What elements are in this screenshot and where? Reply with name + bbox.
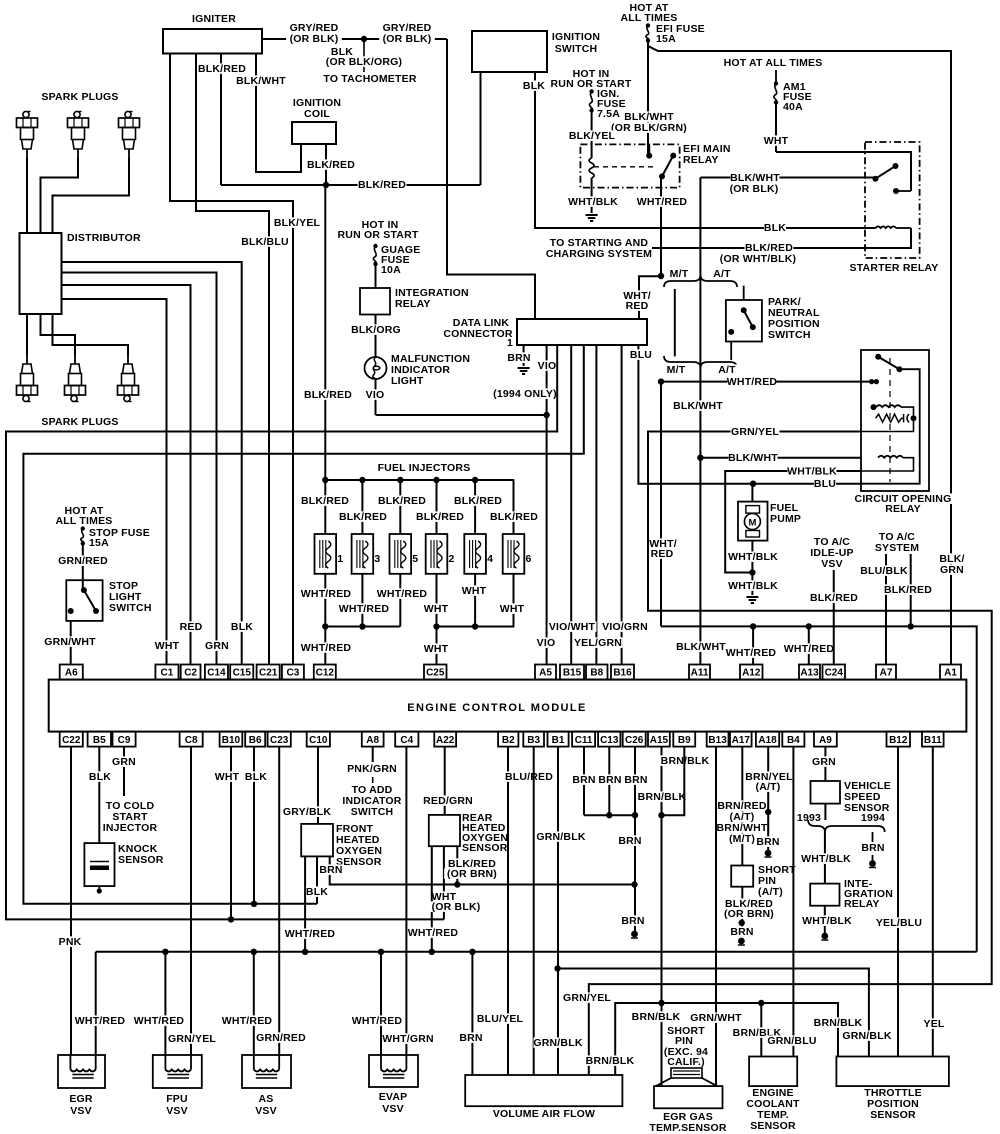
connector C11 (572, 732, 595, 747)
connector A1 (940, 665, 961, 680)
connector A5 (535, 665, 556, 680)
EVAP VSV (369, 1055, 418, 1087)
svg-text:B3: B3 (527, 735, 540, 746)
1993/1994 brace (808, 820, 885, 832)
svg-text:(OR WHT/BLK): (OR WHT/BLK) (720, 253, 796, 265)
svg-text:BLK/YEL: BLK/YEL (274, 217, 321, 229)
wire A17 through short pin (741, 747, 743, 866)
connector C25 (424, 665, 447, 680)
svg-text:PNK: PNK (59, 936, 82, 948)
EFI relay switch contacts (670, 153, 676, 159)
svg-text:ALL TIMES: ALL TIMES (55, 515, 112, 527)
svg-text:GRY/BLK: GRY/BLK (283, 806, 331, 818)
svg-text:WHT/BLK: WHT/BLK (728, 580, 778, 592)
svg-text:BLK/WHT: BLK/WHT (673, 400, 723, 412)
svg-text:C15: C15 (233, 668, 252, 679)
svg-text:M/T: M/T (670, 268, 689, 280)
wire integration relay to MIL (375, 315, 377, 358)
svg-text:INJECTOR: INJECTOR (103, 822, 158, 834)
svg-text:A7: A7 (880, 668, 893, 679)
svg-text:GRN/BLK: GRN/BLK (536, 831, 585, 843)
svg-text:(OR BLK): (OR BLK) (432, 901, 481, 913)
connector C23 (268, 732, 291, 747)
knock sensor (84, 843, 114, 886)
spark plugs top label (39, 91, 122, 102)
svg-text:B15: B15 (563, 668, 582, 679)
svg-text:A9: A9 (819, 735, 832, 746)
svg-text:VSV: VSV (166, 1105, 188, 1117)
spark plug 2 bottom (65, 355, 86, 402)
svg-text:C8: C8 (185, 735, 198, 746)
wire gauge fuse to integration relay (375, 266, 377, 289)
svg-text:RELAY: RELAY (395, 298, 431, 310)
svg-text:7.5A: 7.5A (597, 108, 620, 120)
wire VIO horizontal to A5 (376, 414, 547, 416)
integration relay box (upper) (360, 288, 390, 315)
svg-text:C26: C26 (625, 735, 644, 746)
wire distributor to bottom plug1 (26, 314, 28, 355)
starter relay switch (893, 163, 899, 169)
rear heated oxygen sensor (429, 815, 460, 846)
svg-text:VSV: VSV (821, 558, 843, 570)
svg-text:BLK/RED: BLK/RED (416, 511, 464, 523)
svg-text:WHT/RED: WHT/RED (285, 928, 336, 940)
rear O2 left pin WHT/RED to bus (431, 846, 433, 952)
svg-text:BLK/RED: BLK/RED (307, 159, 355, 171)
wire plug3 to distributor (53, 158, 130, 233)
svg-text:WHT/RED: WHT/RED (352, 1015, 403, 1027)
svg-text:B1: B1 (552, 735, 565, 746)
wire BLK/RED horizontal to ignition switch pin (221, 184, 481, 186)
connector B11 (922, 732, 944, 747)
connector B9 (673, 732, 695, 747)
svg-text:C10: C10 (309, 735, 328, 746)
svg-text:SENSOR: SENSOR (336, 856, 382, 868)
wire B11 YEL to TPS (932, 747, 934, 1057)
svg-text:BRN: BRN (624, 774, 647, 786)
wire B10 WHT to WHT bus (230, 747, 232, 920)
svg-text:DISTRIBUTOR: DISTRIBUTOR (67, 232, 141, 244)
svg-text:YEL/GRN: YEL/GRN (574, 637, 622, 649)
svg-text:BLK/BLU: BLK/BLU (241, 236, 288, 248)
svg-text:(OR BRN): (OR BRN) (447, 868, 497, 880)
wire GRY/RED to DLC (364, 38, 447, 40)
svg-text:ENGINE CONTROL MODULE: ENGINE CONTROL MODULE (407, 702, 587, 714)
svg-text:GRN/BLU: GRN/BLU (767, 1035, 816, 1047)
svg-text:(OR BLK/ORG): (OR BLK/ORG) (326, 56, 402, 68)
ground fuel pump (746, 596, 758, 598)
vehicle speed sensor (811, 781, 841, 804)
svg-text:(A/T): (A/T) (756, 781, 781, 793)
svg-text:RELAY: RELAY (885, 503, 921, 515)
wire igniter pin4 to ignition coil (BLK/WHT) (256, 54, 301, 173)
svg-text:GRN/YEL: GRN/YEL (563, 992, 611, 1004)
svg-text:4: 4 (487, 553, 493, 565)
svg-text:C2: C2 (184, 668, 197, 679)
wire WHT/RED branch to DLC top (639, 276, 661, 319)
svg-text:WHT: WHT (764, 135, 789, 147)
svg-text:B12: B12 (889, 735, 908, 746)
node A12 tap (750, 623, 756, 629)
park/neutral M/T A/T brace top (668, 268, 690, 279)
connector C8 (180, 732, 203, 747)
svg-text:B6: B6 (249, 735, 262, 746)
svg-text:C23: C23 (270, 735, 289, 746)
throttle position sensor box (836, 1057, 949, 1087)
svg-text:C3: C3 (287, 668, 300, 679)
wire EFI fuse to A1 feed (648, 42, 951, 665)
node FPU tap (162, 949, 168, 955)
wire stop fuse to switch (82, 545, 84, 590)
wire igniter pin3 down (BLK/RED) (220, 54, 222, 186)
wire BLK/RED to WHT/RED feed (910, 554, 912, 627)
connector A22 (434, 732, 456, 747)
connector A15 (648, 732, 670, 747)
connector B15 (560, 665, 584, 680)
labels WHT/RED / WHT (302, 588, 351, 599)
svg-text:GRN/RED: GRN/RED (58, 555, 108, 567)
svg-text:C21: C21 (259, 668, 278, 679)
svg-text:A12: A12 (742, 668, 761, 679)
connector B12 (887, 732, 911, 747)
svg-text:B11: B11 (924, 735, 942, 746)
svg-text:PNK/GRN: PNK/GRN (347, 763, 397, 775)
wire BLK/WHT (OR BLK) to starter relay (700, 177, 875, 179)
wire C9 GRN to cold start injector (123, 747, 125, 796)
front O2 left pin WHT/RED to bus (304, 856, 306, 951)
svg-text:VSV: VSV (70, 1105, 92, 1117)
svg-text:FPU: FPU (166, 1093, 188, 1105)
wire distributor to bottom plug2 (41, 314, 76, 355)
svg-text:(M/T): (M/T) (729, 833, 755, 845)
svg-text:SENSOR: SENSOR (750, 1120, 796, 1132)
svg-text:BRN: BRN (621, 915, 644, 927)
wire 1993 WHT/BLK to integration relay (824, 832, 826, 884)
svg-text:BRN: BRN (598, 774, 621, 786)
spark plug 2 top (68, 111, 89, 158)
labels BLK/RED row2 (339, 511, 388, 522)
label BLK/WHT (237, 75, 286, 86)
svg-text:BLK/RED: BLK/RED (378, 495, 426, 507)
svg-text:A11: A11 (691, 668, 709, 679)
wire EFI fuse down to EFI main relay (647, 46, 649, 156)
svg-text:BRN/BLK: BRN/BLK (638, 791, 687, 803)
connector A13 (799, 665, 820, 680)
wire WHT/RED horizontal feed (661, 626, 977, 951)
svg-text:WHT/RED: WHT/RED (222, 1015, 273, 1027)
front heated oxygen sensor (301, 824, 333, 857)
connector A6 (60, 665, 83, 680)
wire B5 BLK to knock sensor (98, 747, 100, 844)
svg-text:WHT/BLK: WHT/BLK (801, 853, 851, 865)
connector C14 (205, 665, 228, 680)
svg-text:WHT/RED: WHT/RED (301, 588, 352, 600)
svg-text:WHT/GRN: WHT/GRN (382, 1033, 434, 1045)
ground EFI relay (586, 214, 598, 216)
wire C22 PNK to EGR VSV (70, 747, 72, 1055)
wire WHT/RED to circuit opening relay (661, 381, 869, 383)
svg-text:COIL: COIL (304, 108, 330, 120)
wire GRN/WHT to A6 (70, 621, 72, 665)
svg-text:BLK/YEL: BLK/YEL (569, 130, 616, 142)
svg-text:A6: A6 (65, 668, 78, 679)
svg-text:SWITCH: SWITCH (109, 602, 152, 614)
svg-text:BLU/BLK: BLU/BLK (860, 565, 908, 577)
wire MIL VIO to A5 junction (375, 379, 377, 415)
svg-text:C9: C9 (118, 735, 131, 746)
svg-text:EVAP: EVAP (379, 1091, 408, 1103)
label BLK/ORG (352, 324, 401, 335)
svg-text:C13: C13 (600, 735, 619, 746)
svg-text:BLK/RED: BLK/RED (339, 511, 387, 523)
label GRY/RED (OR BLK) #2 (383, 22, 432, 33)
EFI main relay box (580, 144, 679, 187)
svg-text:B5: B5 (93, 735, 106, 746)
fuel pump (738, 502, 768, 541)
svg-text:(1994 ONLY): (1994 ONLY) (493, 388, 557, 400)
svg-text:WHT: WHT (462, 585, 487, 597)
svg-text:BRN: BRN (319, 864, 342, 876)
wire distributor to bottom plug3 (53, 314, 129, 355)
wire BRN junction down (634, 815, 636, 933)
EFI fuse 15A (646, 23, 650, 27)
injector return bus right to C25 (437, 626, 515, 628)
svg-text:GRN/RED: GRN/RED (256, 1032, 306, 1044)
svg-text:BLU/RED: BLU/RED (505, 771, 553, 783)
injector output wires (324, 574, 326, 627)
node BLK/RED junction at coil (323, 182, 329, 188)
svg-text:1994: 1994 (861, 812, 885, 824)
svg-text:GRN/BLK: GRN/BLK (533, 1037, 582, 1049)
label BLK (OR BLK/ORG) TO TACHOMETER (331, 46, 353, 57)
svg-text:VSV: VSV (255, 1105, 277, 1117)
A8 stub PNK/GRN (372, 747, 374, 762)
svg-text:GRN: GRN (205, 640, 229, 652)
wire plug2 to distributor (41, 158, 79, 233)
svg-text:BRN: BRN (618, 835, 641, 847)
wire fuel pump top to BLU (751, 484, 753, 502)
wire B12 YEL/BLU to TPS (897, 747, 899, 1057)
svg-text:FUEL INJECTORS: FUEL INJECTORS (378, 462, 471, 474)
wire igniter output GRY/RED (262, 38, 364, 40)
svg-text:VIO/GRN: VIO/GRN (602, 621, 648, 633)
svg-text:RELAY: RELAY (683, 154, 719, 166)
distributor box (20, 233, 62, 314)
svg-text:5: 5 (412, 553, 418, 565)
IGN fuse 7.5A (589, 89, 593, 93)
DLC pin WHT bus wire (wraps left) (6, 345, 557, 919)
svg-text:B9: B9 (678, 735, 691, 746)
rear O2 mid pin WHT(OR BLK) to WHT bus (443, 846, 445, 919)
svg-text:BLK: BLK (245, 771, 267, 783)
svg-text:BLU/YEL: BLU/YEL (477, 1013, 524, 1025)
EGR gas temp sensor box (654, 1086, 723, 1108)
svg-text:CONNECTOR: CONNECTOR (443, 328, 512, 340)
wire ECT pin1 (760, 1003, 762, 1057)
connector A9 (814, 732, 837, 747)
svg-text:A22: A22 (436, 735, 455, 746)
label WHT/RED (638, 196, 687, 207)
wire igniter pin1 to C3 (BLK/YEL) (170, 54, 293, 665)
DLC pin BLU to fuel pump / circuit opening relay (638, 345, 861, 484)
svg-text:GRN: GRN (940, 564, 964, 576)
svg-text:WHT: WHT (215, 771, 240, 783)
relay internals: switch (875, 354, 881, 360)
label GRN/YEL near VAF (563, 992, 612, 1003)
svg-text:BLK: BLK (764, 222, 786, 234)
injector feed wires (324, 480, 326, 534)
EGR gas temp sensor trapezoid legs (656, 1078, 671, 1086)
EFI relay dashed link (594, 166, 655, 168)
wire A15 BRN/BLK down (661, 747, 663, 1086)
svg-text:EGR: EGR (69, 1093, 93, 1105)
svg-text:1: 1 (337, 553, 343, 565)
wire integration relay WHT/BLK terminal (824, 906, 826, 934)
label VIO (364, 389, 386, 400)
wire coil to BLK/RED junction (325, 144, 327, 185)
wire VSS to 1993/1994 brace (824, 804, 826, 820)
svg-text:A17: A17 (732, 735, 751, 746)
svg-text:GRN/YEL: GRN/YEL (731, 426, 779, 438)
wires C11 C13 C26 BRN (583, 747, 585, 816)
short pin (A/T) box (731, 866, 753, 887)
label WHT/ RED vertical (649, 538, 678, 549)
wire igniter pin2 to C21 (BLK/BLU) (196, 54, 269, 665)
starter relay coil BLK (876, 226, 897, 228)
svg-text:WHT/RED: WHT/RED (727, 376, 778, 388)
wire tachometer stub (363, 42, 365, 72)
svg-text:WHT/RED: WHT/RED (75, 1015, 126, 1027)
connector B13 (707, 732, 729, 747)
connector A18 (756, 732, 779, 747)
svg-text:WHT: WHT (424, 603, 449, 615)
DLC pin YEL/GRN to B8 (595, 345, 597, 665)
stop fuse 15A (81, 526, 85, 530)
svg-text:CHARGING SYSTEM: CHARGING SYSTEM (546, 248, 652, 260)
svg-text:VIO/WHT: VIO/WHT (549, 621, 596, 633)
svg-text:RED: RED (180, 621, 203, 633)
svg-text:BLU: BLU (630, 349, 652, 361)
svg-text:1: 1 (507, 337, 513, 349)
wire B3 to VAF (533, 747, 535, 1075)
data link connector box (517, 319, 647, 345)
wire B4 GRN/BLU to ECT (792, 747, 794, 1057)
label GRY/RED (OR BLK) #1 (290, 22, 339, 33)
node EVAP tap (378, 949, 384, 955)
svg-text:BLK/RED: BLK/RED (198, 63, 246, 75)
injector feed bus BLK/RED (325, 479, 514, 481)
label BLK/YEL (273, 217, 322, 228)
svg-text:A13: A13 (800, 668, 819, 679)
svg-text:B10: B10 (222, 735, 241, 746)
engine coolant temp sensor box (749, 1057, 797, 1087)
svg-text:B4: B4 (787, 735, 800, 746)
FPU VSV (153, 1055, 202, 1088)
connector C3 (282, 665, 304, 680)
connector B16 (611, 665, 634, 680)
svg-text:C25: C25 (426, 668, 445, 679)
DLC pin VIO/GRN to B16 (621, 345, 623, 665)
svg-text:BRN: BRN (507, 352, 530, 364)
WHT/RED bus (96, 951, 977, 953)
svg-text:RED: RED (651, 548, 674, 560)
svg-text:10A: 10A (381, 264, 401, 276)
label BLK/RED (OR WHT/BLK) (745, 242, 794, 253)
wire distributor to C14 (62, 273, 217, 665)
svg-text:A8: A8 (366, 735, 379, 746)
wire plug1 to distributor (26, 158, 28, 233)
svg-text:SWITCH: SWITCH (555, 43, 598, 55)
wire distributor to C1 (62, 299, 167, 665)
label BLK/YEL (568, 130, 617, 141)
spark plugs bottom label (39, 416, 122, 427)
svg-text:BLK: BLK (89, 771, 111, 783)
svg-text:VOLUME AIR FLOW: VOLUME AIR FLOW (493, 1108, 595, 1120)
wire C23 GRN/RED to AS VSV (278, 747, 280, 1055)
label WHT/BLK (569, 196, 618, 207)
svg-text:WHT/BLK: WHT/BLK (787, 466, 837, 478)
ignition switch box (472, 31, 547, 72)
svg-text:BRN/BLK: BRN/BLK (814, 1017, 863, 1029)
label BLK/BLU (241, 236, 290, 247)
EGR VSV (58, 1055, 105, 1088)
connector C9 (113, 732, 136, 747)
svg-text:BRN: BRN (572, 774, 595, 786)
AS VSV (242, 1055, 291, 1088)
svg-text:15A: 15A (656, 33, 676, 45)
connector A8 (362, 732, 384, 747)
injector boxes 1 3 5 2 4 6 (315, 534, 337, 574)
label BLK/RED vertical (304, 389, 353, 400)
svg-text:BLK/RED: BLK/RED (358, 179, 406, 191)
wire EGR right pin (95, 952, 97, 1055)
svg-text:C11: C11 (575, 735, 593, 746)
injector return bus left to C12 (325, 626, 400, 628)
label BLK/WHT (OR BLK/GRN) (625, 111, 674, 122)
labels above top connectors (156, 640, 178, 651)
svg-text:HOT AT ALL TIMES: HOT AT ALL TIMES (724, 57, 823, 69)
integration relay box (lower) (810, 884, 839, 906)
wire A/C idle-up BLK/RED to C24 (833, 570, 835, 665)
label BLK ignition switch (523, 80, 545, 91)
svg-text:BLK/WHT: BLK/WHT (728, 452, 778, 464)
svg-text:RELAY: RELAY (844, 898, 880, 910)
connector B6 (245, 732, 265, 747)
svg-text:C24: C24 (825, 668, 844, 679)
spark plug 1 top (17, 111, 38, 158)
svg-text:IGNITION: IGNITION (552, 31, 600, 43)
svg-text:SENSOR: SENSOR (870, 1109, 916, 1121)
svg-text:BLK: BLK (523, 80, 545, 92)
svg-text:BRN/BLK: BRN/BLK (632, 1011, 681, 1023)
svg-text:YEL/BLU: YEL/BLU (876, 917, 922, 929)
wire WHT/RED vertical down to A12/A13 feed (660, 382, 662, 627)
svg-text:GRN/WHT: GRN/WHT (44, 636, 96, 648)
wire BLK/WHT to circuit opening relay (700, 457, 861, 459)
circuit opening relay box (861, 350, 929, 491)
DLC pin BLK bus wire (wraps left) (23, 345, 583, 904)
svg-text:WHT/RED: WHT/RED (134, 1015, 185, 1027)
label BLK/WHT above A11 (677, 641, 726, 652)
svg-text:SYSTEM: SYSTEM (875, 542, 919, 554)
svg-text:GRN: GRN (112, 756, 136, 768)
DLC pin VIO to A5 (546, 345, 548, 665)
svg-text:BRN: BRN (756, 836, 779, 848)
wire ignition switch right pin BLK to starter relay (535, 72, 876, 228)
engine control module box (49, 680, 967, 732)
ignition coil (289, 97, 345, 108)
svg-text:BLK: BLK (231, 621, 253, 633)
